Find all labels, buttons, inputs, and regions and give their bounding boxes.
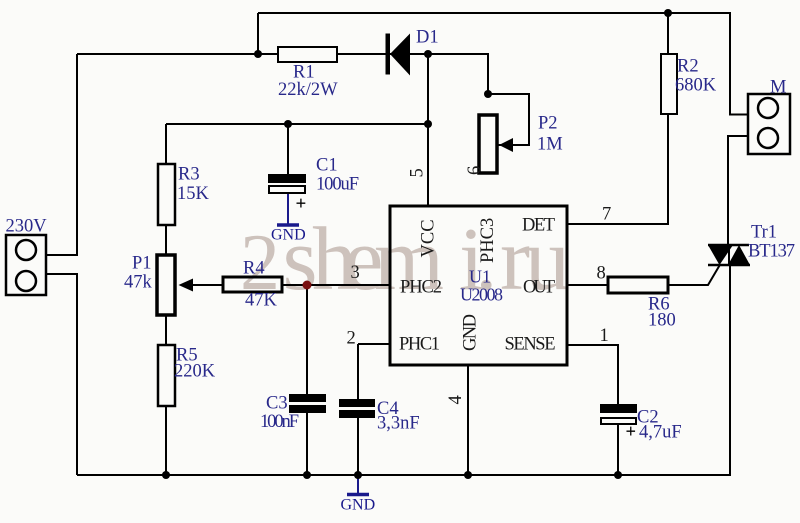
svg-text:C3: C3: [266, 394, 288, 414]
svg-text:5: 5: [408, 168, 428, 177]
svg-text:GND: GND: [461, 314, 481, 351]
svg-text:P2: P2: [538, 114, 558, 134]
svg-text:8: 8: [597, 264, 606, 284]
svg-text:6: 6: [465, 166, 485, 175]
svg-text:47k: 47k: [124, 273, 153, 293]
svg-text:R3: R3: [178, 165, 200, 185]
svg-text:22k/2W: 22k/2W: [278, 80, 338, 100]
svg-text:GND: GND: [341, 497, 376, 514]
svg-text:3,3nF: 3,3nF: [377, 414, 420, 434]
svg-text:2: 2: [347, 329, 356, 349]
svg-text:R2: R2: [677, 57, 699, 77]
svg-text:15K: 15K: [177, 184, 210, 204]
svg-text:VCC: VCC: [419, 219, 439, 257]
svg-text:1: 1: [600, 326, 609, 346]
svg-text:P1: P1: [132, 254, 152, 274]
svg-text:PHC1: PHC1: [399, 335, 440, 355]
svg-text:OUT: OUT: [523, 278, 555, 298]
svg-text:GND: GND: [271, 227, 306, 244]
svg-text:680K: 680K: [675, 76, 717, 96]
svg-text:R4: R4: [243, 259, 265, 279]
svg-text:180: 180: [648, 311, 676, 331]
svg-text:BT137: BT137: [748, 242, 795, 262]
svg-text:Tr1: Tr1: [751, 223, 777, 243]
svg-text:7: 7: [602, 205, 611, 225]
svg-text:47K: 47K: [245, 291, 278, 311]
svg-text:100uF: 100uF: [316, 175, 359, 195]
svg-text:1M: 1M: [537, 135, 563, 155]
svg-text:4,7uF: 4,7uF: [639, 423, 682, 443]
svg-text:C1: C1: [316, 156, 338, 176]
svg-text:PHC2: PHC2: [400, 278, 442, 298]
svg-text:230V: 230V: [6, 217, 48, 237]
svg-text:220K: 220K: [174, 362, 216, 382]
svg-text:+: +: [296, 194, 307, 215]
svg-text:3: 3: [351, 263, 360, 283]
svg-text:100nF: 100nF: [260, 412, 299, 432]
svg-text:+: +: [626, 423, 637, 443]
svg-text:D1: D1: [416, 28, 439, 48]
svg-text:PHC3: PHC3: [478, 218, 498, 263]
svg-text:SENSE: SENSE: [505, 335, 556, 355]
svg-text:4: 4: [446, 395, 466, 404]
svg-text:M: M: [770, 78, 786, 98]
svg-text:DET: DET: [522, 216, 555, 236]
svg-text:U2008: U2008: [460, 285, 503, 305]
svg-text:U1: U1: [469, 267, 491, 287]
